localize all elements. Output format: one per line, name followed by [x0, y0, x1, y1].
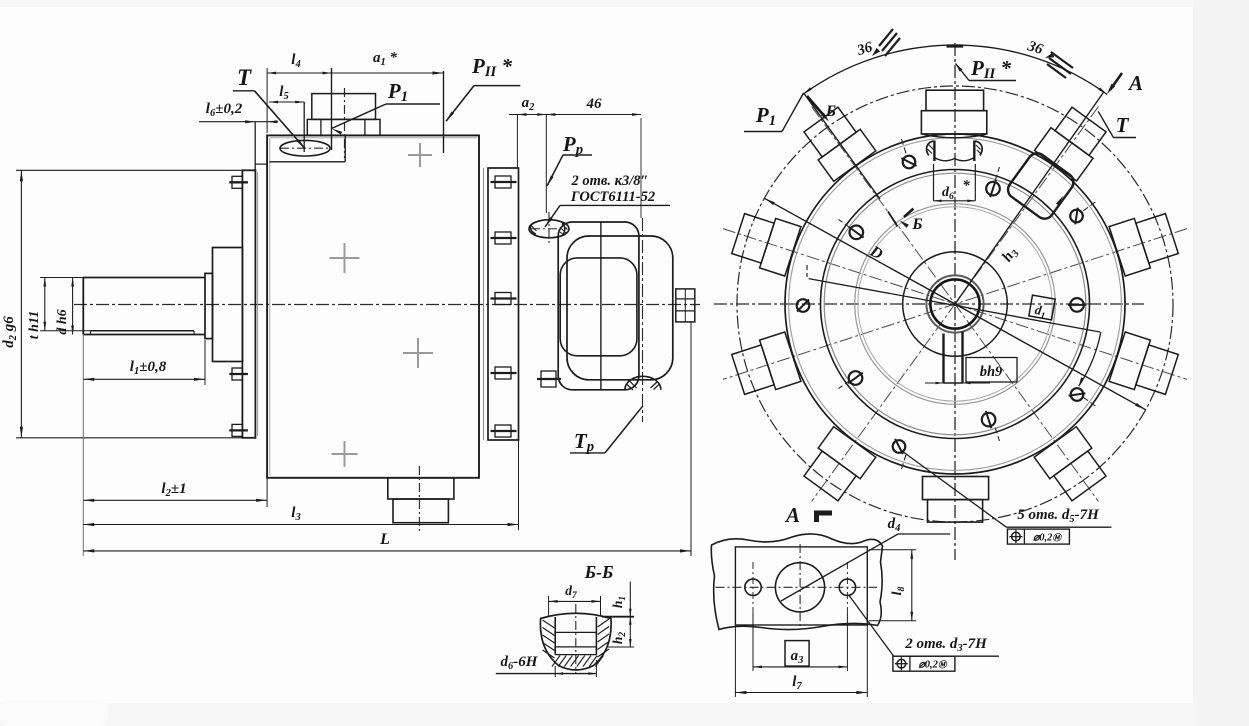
dimension l4: [267, 52, 331, 150]
label T right view: [1098, 111, 1136, 137]
flange bolt 3: [229, 424, 248, 436]
body rear shadow line: [483, 168, 485, 440]
h3 line (54 deg radial): [955, 92, 1104, 304]
label PII left view: [446, 54, 520, 121]
main centerline left view: [74, 304, 700, 306]
view A title: [784, 503, 832, 527]
stud plug at 306 deg: [1034, 427, 1106, 501]
rear plate bolt 3: [491, 293, 517, 305]
section mark B upper: [807, 96, 836, 122]
top boss lower rect: [307, 119, 380, 135]
svg-text:А: А: [784, 503, 800, 527]
view A horizontal axis: [716, 586, 878, 588]
view A right hole: [839, 579, 855, 595]
dimension l2: [83, 478, 267, 507]
diagonal axis 126 deg: [812, 107, 1099, 502]
top plug lower rect: [921, 111, 986, 134]
keyway slot: [944, 332, 963, 384]
body center cross 3: [403, 338, 433, 368]
rear port k3/8 ellipse: [529, 220, 569, 238]
bottom band: [0, 703, 1249, 726]
label T left view: [233, 65, 305, 149]
hub: [213, 248, 243, 362]
svg-text:T: T: [1116, 113, 1130, 137]
shaft bore outer: [926, 275, 983, 332]
screw d5 at 180 deg: [781, 299, 810, 312]
dimension L: [83, 322, 691, 556]
T plug outer rects: [1035, 104, 1111, 181]
screw small at 0 deg: [1068, 298, 1099, 312]
radial line P1-B (126 deg): [804, 93, 880, 199]
svg-text:ГОСТ6111-52: ГОСТ6111-52: [570, 189, 655, 205]
svg-text:L: L: [379, 531, 390, 548]
flange bolt 1: [229, 176, 248, 188]
triple mark right: [1045, 52, 1073, 78]
right view horizontal centerline: [714, 303, 1144, 305]
svg-text:*: *: [962, 178, 970, 194]
body double circle inner: [824, 173, 1086, 435]
label P1 left view: [332, 79, 441, 135]
dimension l5: [269, 84, 304, 152]
T plug socket square: [1004, 149, 1078, 223]
rear plate bolt 5: [491, 425, 517, 437]
body shadow lines: [270, 138, 477, 476]
svg-text:T: T: [237, 65, 252, 90]
end cap cavity: [560, 258, 637, 356]
section mark B lower: [888, 209, 923, 233]
top plug upper rect: [926, 90, 984, 111]
right plug: [676, 289, 695, 322]
svg-text:А: А: [1127, 71, 1143, 95]
screw d5 at 324 deg: [1069, 388, 1097, 406]
rear port axis vertical: [641, 118, 643, 422]
shaft step ring: [205, 273, 213, 338]
view A left hole axis: [752, 562, 754, 614]
shaft bore inner: [930, 279, 979, 328]
top boss upper rect: [312, 94, 376, 120]
view A vertical axis: [799, 544, 801, 629]
B-B bottom hatch: [552, 656, 603, 667]
view A pad rect: [735, 547, 867, 625]
screw d5 at 252 deg: [893, 439, 906, 470]
svg-text:a1 *: a1 *: [373, 50, 398, 68]
svg-text:l2±1: l2±1: [161, 481, 186, 499]
screw circle diameter line: [807, 265, 1100, 332]
dimension l7: [735, 625, 867, 697]
screw d5 at 108 deg: [901, 138, 917, 168]
dimension d6-6H: [496, 654, 597, 677]
svg-text:⌀0,2Ⓜ: ⌀0,2Ⓜ: [1033, 533, 1062, 544]
dimension h1 h2: [602, 582, 634, 648]
top boss axis P1: [344, 88, 346, 158]
body center cross 2: [330, 243, 360, 273]
stud plug at 126 deg: [804, 107, 876, 181]
rear plate bolt 4: [491, 367, 517, 379]
top port oval axis: [280, 147, 330, 149]
dimension d7: [549, 583, 601, 616]
dimension bh9: [925, 358, 1017, 385]
label Pp: [547, 132, 592, 186]
shaft key flat: [91, 331, 195, 335]
rear port hatch: [530, 222, 567, 236]
svg-text:2 отв. к3/8″: 2 отв. к3/8″: [570, 173, 648, 189]
dimension l1: [83, 335, 205, 557]
body double circle outer: [821, 170, 1090, 439]
stud plug at 342 deg: [1109, 332, 1178, 394]
right edge band: [1193, 0, 1249, 726]
dimension d2 g6: [1, 170, 242, 438]
bottom plug wide rect: [923, 477, 989, 500]
flange-body step line: [255, 163, 267, 165]
svg-text:Б-Б: Б-Б: [584, 562, 614, 582]
label Tp: [570, 406, 643, 455]
dimension d h6: [55, 278, 74, 335]
B-B wall hatch right: [598, 619, 610, 657]
stud pitch dash-dot circle: [737, 86, 1173, 522]
diagonal axis 18 deg: [723, 229, 1187, 380]
end cap flange: [558, 222, 639, 390]
screw small at 288 deg: [982, 411, 1000, 441]
diagonal axis 54 deg: [812, 107, 1099, 502]
top port recess: [269, 135, 345, 161]
cap screw lower: [537, 371, 561, 387]
svg-text:d2 g6: d2 g6: [1, 316, 19, 348]
rear port axis: [531, 212, 567, 246]
label 2 otv k3/8 GOST: [545, 173, 670, 227]
svg-text:Б: Б: [911, 216, 922, 233]
h3 arrow: [1056, 195, 1064, 205]
B-B axis: [575, 604, 577, 673]
view A left hole: [745, 579, 761, 595]
svg-text:bh9: bh9: [980, 364, 1003, 380]
svg-text:d h6: d h6: [55, 309, 70, 334]
dimension t h11: [27, 278, 91, 340]
rear plate bolt 1: [491, 176, 517, 188]
svg-text:Б: Б: [825, 103, 836, 120]
arc end arrow left: [803, 87, 812, 94]
bottom drain hatch: [627, 381, 660, 391]
hub circle: [903, 252, 1008, 357]
stud plug at 234 deg: [804, 427, 876, 501]
36 deg dimension arc: [803, 45, 1107, 94]
bottom plug narrow rect: [928, 500, 983, 522]
end cap dome: [567, 236, 673, 380]
flange bolt 2: [229, 368, 248, 380]
screw circle arc: [1079, 332, 1101, 386]
arc apex tick: [947, 44, 964, 47]
svg-text:5 отв. d5-7H: 5 отв. d5-7H: [1017, 507, 1100, 525]
flange outer circle inner grey: [789, 138, 1122, 471]
arc end arrow right: [1098, 87, 1107, 94]
label P1 right view: [744, 93, 804, 132]
stud plug at 18 deg: [1109, 214, 1178, 276]
bottom boss wide rect: [388, 478, 454, 499]
stud plug at 162 deg: [732, 214, 801, 276]
bottom left light patch: [0, 700, 108, 726]
view arrow A: [1107, 71, 1143, 95]
bottom boss axis: [418, 466, 420, 531]
pump body: [267, 135, 479, 477]
top band: [0, 0, 1249, 7]
top plug port hole: [927, 141, 983, 162]
stud plug at 198 deg: [732, 332, 801, 394]
rear cover plate: [488, 168, 519, 440]
dimension l3: [83, 440, 518, 530]
mounting flange plate: [242, 170, 255, 438]
view A right hole axis: [846, 562, 848, 614]
dimension a3 box: [753, 614, 847, 671]
diagonal axis 162 deg: [723, 229, 1187, 380]
B-B wall hatch left: [543, 620, 555, 658]
triple mark left: [872, 29, 900, 56]
d1 box: [1029, 295, 1056, 322]
top port oval T: [280, 140, 330, 156]
dimension a1: [332, 50, 444, 153]
flange outer circle: [785, 134, 1125, 474]
dimension l6: [199, 101, 278, 170]
bottom drain port arc: [625, 376, 661, 390]
inner grey circle outer: [855, 204, 1056, 405]
svg-text:⌀0,2Ⓜ: ⌀0,2Ⓜ: [918, 660, 947, 671]
screw small at 144 deg: [839, 219, 864, 239]
svg-text:46: 46: [586, 96, 603, 112]
dimension d6 box: [934, 164, 976, 202]
screw small at 216 deg: [839, 371, 863, 388]
label d4: [781, 516, 950, 601]
end cap parting line: [600, 222, 602, 390]
rear plate bolt 2: [491, 232, 517, 244]
svg-text:2 отв. d3-7H: 2 отв. d3-7H: [904, 636, 988, 654]
D dimension line: [764, 198, 1145, 409]
label PII right view: [956, 56, 1017, 82]
dimension a2 and 46: [509, 95, 641, 213]
body center cross 1: [408, 143, 432, 167]
screw small at 72 deg: [986, 167, 1000, 197]
body center cross 4: [332, 441, 358, 467]
tolerance frame d5: [1007, 529, 1069, 544]
dimension l8: [869, 550, 916, 621]
bottom boss narrow rect: [393, 499, 448, 523]
tolerance frame d3: [893, 656, 955, 671]
svg-text:d6-6H: d6-6H: [501, 654, 539, 672]
top plug washer arc: [923, 134, 987, 138]
shaft: [83, 278, 205, 335]
svg-text:t h11: t h11: [27, 311, 42, 339]
inner grey circle inner: [858, 207, 1052, 401]
B-B cup outline: [540, 613, 611, 670]
view A blob outline: [711, 534, 882, 630]
view A center hole: [775, 563, 824, 612]
label 5 otv d5-7H: [902, 451, 1111, 527]
flange shadow line: [257, 172, 259, 436]
right view vertical centerline: [954, 43, 956, 560]
B-B bore: [555, 617, 596, 655]
screw d5 at 36 deg: [1070, 201, 1096, 224]
label 2 otv d3-7H: [849, 595, 999, 656]
top boss inner lines: [321, 119, 365, 135]
